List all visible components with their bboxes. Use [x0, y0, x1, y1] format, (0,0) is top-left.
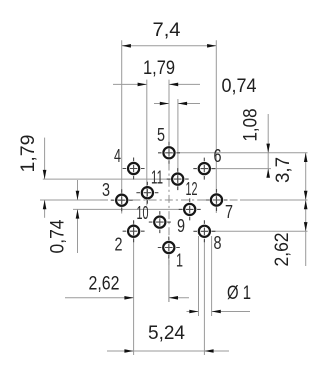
pin 2 [123, 220, 145, 242]
dimension 1,79 left (rotated) [44, 138, 46, 180]
dimension 0,74 top right [154, 103, 169, 105]
extension line pin12 row (left) [43, 178, 171, 180]
svg-text:8: 8 [214, 233, 222, 253]
extension line pin1 column (bottom) [168, 257, 170, 302]
dimension 2,62 bottom [65, 297, 134, 299]
dimension 7,4 [122, 45, 217, 47]
svg-text:7: 7 [225, 202, 233, 222]
svg-text:4: 4 [114, 146, 121, 166]
pin 8 [193, 220, 215, 242]
dimension 2,62 right (rotated) [304, 200, 308, 209]
svg-text:2,62: 2,62 [271, 233, 293, 267]
svg-text:9: 9 [177, 216, 185, 236]
dimension 3,7 right (rotated) [305, 153, 307, 266]
extension line pin5 row (right) [177, 152, 308, 154]
svg-text:0,74: 0,74 [47, 219, 69, 253]
extension line center column (1,79 top right) [168, 80, 170, 147]
centerline horizontal [40, 199, 100, 201]
pin 10 [149, 211, 171, 233]
pin 3 [111, 189, 133, 211]
pin 11 [136, 182, 158, 204]
centerline vertical [168, 146, 170, 265]
extension line pin8 row (right) [211, 230, 308, 232]
svg-text:10: 10 [137, 203, 149, 223]
extension line pin7 column (7,4 right) [215, 40, 217, 213]
pin 9 [179, 198, 201, 220]
svg-text:1: 1 [176, 251, 183, 271]
pin 5 [158, 142, 180, 164]
dimension diameter 1 [187, 311, 199, 313]
svg-text:7,4: 7,4 [153, 19, 181, 41]
extension line pin8 column (bottom) [203, 240, 205, 355]
svg-text:6: 6 [214, 146, 222, 166]
pin 12 [167, 168, 189, 190]
extension line pin2 column (bottom) [133, 221, 135, 355]
extension line pin12 column (0,74 top) [177, 99, 179, 190]
svg-text:2: 2 [115, 235, 123, 255]
extension line pin3 column (7,4 left) [121, 40, 123, 213]
pin 6 [193, 158, 215, 180]
extension line pin8 hole right edge [211, 236, 213, 316]
extension line pin9 row (left) [73, 208, 184, 210]
svg-text:3,7: 3,7 [272, 157, 294, 183]
svg-text:2,62: 2,62 [89, 273, 120, 295]
svg-text:3: 3 [102, 180, 110, 200]
svg-text:5,24: 5,24 [148, 322, 185, 344]
extension line pin6 row (right) [211, 168, 271, 170]
svg-text:11: 11 [151, 168, 163, 188]
extension line pin8 hole left edge [198, 236, 200, 316]
extension line pin11 column (1,79 top left) [146, 80, 148, 206]
pin 7 [206, 189, 228, 211]
svg-text:0,74: 0,74 [222, 75, 257, 97]
svg-text:12: 12 [186, 179, 198, 199]
dimension 1,08 right (rotated) [267, 114, 269, 176]
svg-text:5: 5 [157, 125, 165, 145]
pin 4 [123, 158, 145, 180]
svg-text:Ø 1: Ø 1 [227, 282, 251, 304]
svg-text:1,08: 1,08 [240, 109, 262, 142]
pin 1 [158, 237, 180, 259]
dimension 5,24 [107, 350, 229, 352]
dimension 0,74 left (rotated) [77, 180, 79, 200]
dimension 1,79 top [113, 83, 147, 85]
svg-text:1,79: 1,79 [143, 57, 175, 79]
svg-text:1,79: 1,79 [17, 135, 39, 173]
